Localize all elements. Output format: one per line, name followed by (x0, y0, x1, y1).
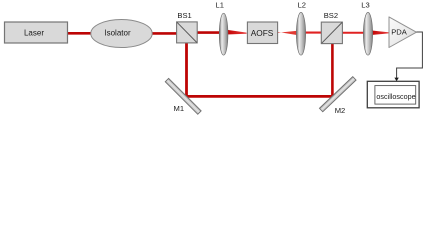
svg-text:Laser: Laser (24, 28, 44, 37)
lens L3 (361, 0, 372, 55)
mirror M1 (165, 78, 201, 114)
svg-text:L1: L1 (215, 1, 223, 10)
svg-text:L2: L2 (298, 1, 306, 10)
lens L1 (215, 1, 227, 56)
isolator (91, 20, 152, 48)
wire beam M2 up to BS2 (331, 43, 334, 98)
photodetector PDA (389, 17, 416, 48)
wire converging beam L3 to PDA (371, 30, 390, 35)
lens L2 (296, 1, 306, 56)
wire beam BS1 down to M1 (185, 42, 188, 98)
arrowhead into oscilloscope (394, 78, 398, 82)
svg-text:Isolator: Isolator (104, 28, 131, 37)
wire beam laser to isolator (66, 32, 93, 35)
wire diverging beam AOFS to L2 (277, 31, 298, 35)
svg-text:L3: L3 (361, 0, 369, 9)
laser box (5, 22, 68, 43)
mirror M2 (319, 77, 356, 116)
wire beam M1 to M2 bottom path (185, 95, 334, 98)
svg-text:M1: M1 (174, 104, 185, 113)
wire beam L2 to BS2 (299, 32, 322, 34)
wire converging beam L1 to AOFS (227, 30, 247, 35)
AOFS box (247, 22, 277, 44)
wire beam BS1 to L1 (196, 31, 224, 34)
wire beam isolator to BS1 (150, 32, 178, 35)
beamsplitter BS2 (321, 11, 342, 44)
svg-text:M2: M2 (335, 106, 346, 115)
svg-text:AOFS: AOFS (251, 28, 274, 38)
svg-text:oscilloscope: oscilloscope (376, 92, 415, 101)
wire beam BS2 to L3 (343, 32, 367, 34)
beamsplitter BS1 (177, 11, 198, 43)
wire connector PDA to oscilloscope (397, 32, 423, 79)
svg-text:BS1: BS1 (177, 11, 191, 20)
oscilloscope (367, 81, 419, 108)
svg-text:PDA: PDA (391, 27, 408, 36)
svg-text:BS2: BS2 (324, 11, 338, 20)
